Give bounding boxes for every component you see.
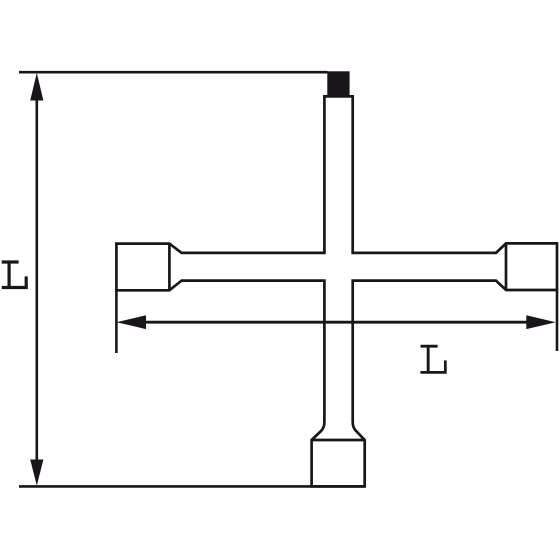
top extension line bbox=[19, 71, 328, 74]
horizontal dimension right arrowhead bbox=[526, 315, 556, 329]
left socket separator line bbox=[168, 244, 171, 291]
bottom extension line bbox=[19, 485, 365, 488]
cross wrench body outline bbox=[116, 96, 557, 486]
horizontal dimension left arrowhead bbox=[117, 315, 147, 329]
vertical dimension line bbox=[35, 95, 38, 463]
right extension line bbox=[556, 290, 559, 351]
label L (horizontal dimension) bbox=[420, 345, 446, 374]
vertical dimension down arrowhead bbox=[30, 460, 43, 486]
horizontal dimension line bbox=[140, 321, 530, 324]
left extension line bbox=[115, 290, 118, 353]
label L (vertical dimension) bbox=[2, 260, 28, 289]
right socket separator line bbox=[505, 243, 508, 290]
bottom socket separator line bbox=[312, 439, 365, 442]
black drive cap on top arm bbox=[327, 71, 349, 97]
vertical dimension up arrowhead bbox=[30, 73, 43, 101]
